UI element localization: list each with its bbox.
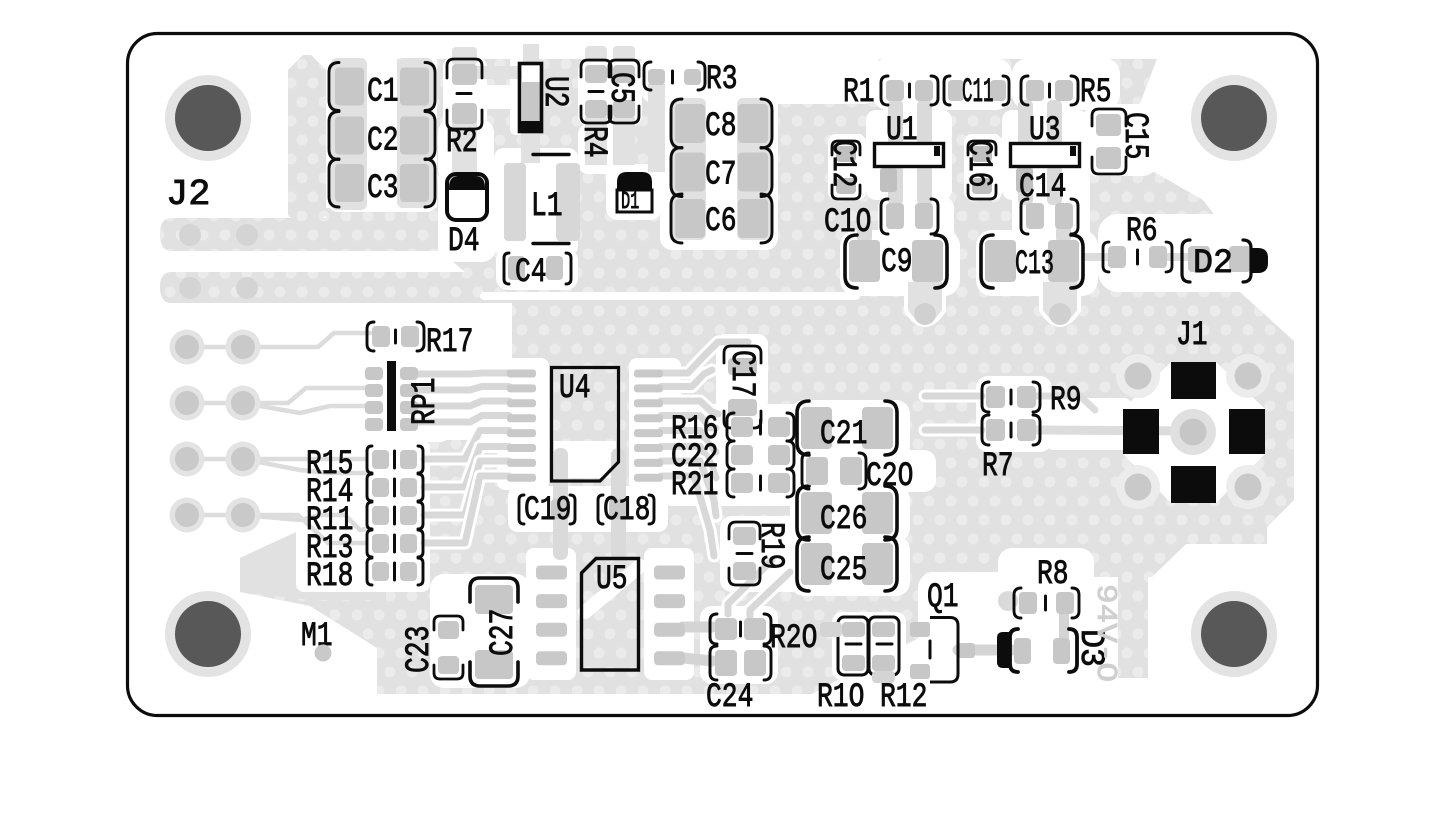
traces RP1 to U4 <box>417 373 509 543</box>
resistor R11 <box>306 502 423 540</box>
capacitor C17 <box>722 346 761 428</box>
traces R19 to R20 C24 <box>683 560 790 661</box>
capacitor C10 <box>824 199 938 242</box>
svg-text:C17: C17 <box>722 350 760 397</box>
svg-text:U4: U4 <box>559 370 591 408</box>
teardrop C13 <box>1043 282 1077 323</box>
resistor R14 <box>306 474 423 512</box>
resistor R15 <box>306 446 423 484</box>
svg-text:R19: R19 <box>751 522 789 569</box>
stems C19 C18 <box>553 448 626 560</box>
svg-text:C4: C4 <box>515 254 547 292</box>
capacitor C1 <box>329 63 435 112</box>
svg-text:R21: R21 <box>671 467 718 505</box>
mount hole BR <box>1191 591 1277 677</box>
svg-text:J2: J2 <box>166 174 210 215</box>
board outline <box>128 34 1318 716</box>
U5 right pads <box>654 566 685 666</box>
U4 left pads <box>507 370 536 482</box>
resistor R7 <box>982 415 1040 486</box>
svg-text:C24: C24 <box>706 679 753 717</box>
stems C9 C13 up <box>857 225 1071 243</box>
traces R9 R7 to J1 <box>925 396 1193 431</box>
svg-text:C5: C5 <box>601 72 639 104</box>
marking 94V-0 <box>1089 584 1122 682</box>
teardrop C9 <box>908 282 942 323</box>
svg-text:C25: C25 <box>820 552 867 590</box>
diode D4 <box>447 174 487 261</box>
capacitor C18 <box>598 492 654 530</box>
svg-text:R12: R12 <box>880 679 927 717</box>
svg-text:L1: L1 <box>531 188 563 226</box>
resistor R8 <box>998 556 1079 618</box>
component R21 <box>671 467 794 505</box>
resistor R10 <box>817 617 868 717</box>
pour strips under C6-C8 <box>672 98 771 240</box>
svg-text:C14: C14 <box>1019 169 1066 207</box>
inductor L1 <box>504 155 580 244</box>
resistor R6 <box>1103 213 1172 272</box>
stems U1 <box>888 100 932 205</box>
svg-text:D1: D1 <box>621 189 639 216</box>
svg-text:J1: J1 <box>1176 317 1208 355</box>
svg-text:C26: C26 <box>820 501 867 539</box>
connector J1 <box>1123 317 1265 503</box>
svg-text:U5: U5 <box>596 561 628 599</box>
diode D2 <box>1182 240 1268 283</box>
resistor R5 <box>1021 74 1112 112</box>
svg-text:C13: C13 <box>1015 246 1054 284</box>
connector J1 corner pads <box>1116 354 1270 509</box>
svg-text:C15: C15 <box>1115 112 1153 159</box>
svg-text:C9: C9 <box>881 244 913 282</box>
svg-text:R1: R1 <box>843 74 875 112</box>
svg-text:C23: C23 <box>401 626 439 673</box>
mount hole TL <box>165 75 251 161</box>
pads C4 <box>508 256 563 280</box>
clearances <box>328 54 437 212</box>
svg-text:U2: U2 <box>535 76 573 108</box>
svg-text:C18: C18 <box>603 492 650 530</box>
pour wedge bottom-left <box>240 522 386 600</box>
svg-text:R8: R8 <box>1037 556 1069 594</box>
mount hole TR <box>1191 75 1277 161</box>
svg-text:R5: R5 <box>1080 74 1112 112</box>
resistor R12 <box>869 617 927 717</box>
capacitor C26 <box>797 486 897 540</box>
capacitor C5 <box>601 60 639 123</box>
copper pour <box>160 59 1294 694</box>
trace R6 to D2 <box>1085 253 1190 261</box>
svg-text:U1: U1 <box>886 112 918 150</box>
capacitor C19 <box>519 492 575 530</box>
white inside U4 <box>554 441 616 478</box>
svg-text:R18: R18 <box>306 558 353 596</box>
capacitor C3 <box>329 159 435 208</box>
svg-text:RP1: RP1 <box>407 378 445 425</box>
U4 right pads <box>634 370 663 482</box>
capacitor C25 <box>797 537 897 591</box>
diode D1 <box>617 172 652 216</box>
traces left fan <box>190 333 370 543</box>
capacitor C9 <box>845 235 947 288</box>
svg-text:C16: C16 <box>959 140 997 187</box>
component R16 <box>671 411 794 449</box>
capacitor C7 <box>671 148 772 197</box>
white channel under top pour <box>484 292 856 300</box>
pour strips under C1-C3 <box>331 58 433 210</box>
svg-text:C3: C3 <box>367 170 399 208</box>
connector J2 pads <box>170 330 261 533</box>
resistor R20 <box>710 614 817 658</box>
svg-text:R3: R3 <box>706 61 738 99</box>
capacitor C2 <box>329 112 435 161</box>
resistor R3 <box>644 61 738 99</box>
resistor network RP1 <box>365 361 445 431</box>
svg-text:R7: R7 <box>982 448 1014 486</box>
capacitor C15 <box>1092 109 1153 174</box>
IC U3 <box>1011 112 1080 192</box>
svg-text:R6: R6 <box>1126 213 1158 251</box>
svg-text:94V-O: 94V-O <box>1089 584 1122 682</box>
svg-text:C11: C11 <box>962 74 994 112</box>
transistor Q1 <box>910 579 975 682</box>
svg-text:C21: C21 <box>820 416 867 454</box>
svg-text:C2: C2 <box>367 123 399 161</box>
capacitor C8 <box>671 99 772 148</box>
capacitor C20 <box>802 453 913 496</box>
stems U3 <box>1018 100 1062 205</box>
capacitor C21 <box>797 401 897 455</box>
capacitor C12 <box>823 140 861 199</box>
resistor R13 <box>306 530 423 568</box>
svg-text:U3: U3 <box>1029 112 1061 150</box>
via pads <box>179 224 201 246</box>
capacitor C4 <box>504 253 571 292</box>
trace R8 to D3 <box>1059 610 1069 640</box>
traces U4 to C17/R16 <box>661 342 748 556</box>
capacitor C13 <box>981 235 1083 288</box>
component C22 <box>671 439 794 477</box>
resistor R1 <box>843 74 938 112</box>
svg-text:D2: D2 <box>1193 245 1233 283</box>
capacitor C23 <box>401 616 463 679</box>
U5 left pads <box>536 566 567 666</box>
capacitor C24 <box>706 646 771 717</box>
svg-text:C8: C8 <box>705 108 737 146</box>
resistor R19 <box>729 522 789 585</box>
svg-text:C2O: C2O <box>866 458 913 496</box>
svg-text:R17: R17 <box>426 324 473 362</box>
resistor R2 <box>446 59 482 162</box>
svg-text:R4: R4 <box>574 126 612 158</box>
svg-text:D4: D4 <box>448 223 480 261</box>
svg-text:Q1: Q1 <box>927 579 959 617</box>
mount hole BL <box>165 591 251 677</box>
pour stubs top cluster <box>452 44 665 174</box>
capacitor C27 <box>470 578 523 686</box>
svg-text:R2O: R2O <box>770 620 817 658</box>
capacitor C6 <box>671 194 772 243</box>
capacitor C16 <box>959 140 997 199</box>
IC U4 <box>552 368 619 482</box>
resistor R17 <box>367 322 473 362</box>
resistor R18 <box>306 558 423 596</box>
svg-text:R9: R9 <box>1050 382 1082 420</box>
svg-text:C19: C19 <box>524 492 571 530</box>
svg-text:C6: C6 <box>705 203 737 241</box>
resistor R4 <box>574 60 612 158</box>
resistor R9 <box>982 382 1082 420</box>
IC U2 <box>520 64 574 132</box>
svg-text:C1: C1 <box>367 74 399 112</box>
svg-text:C27: C27 <box>485 609 523 656</box>
pour patch top-left <box>288 55 326 230</box>
IC U1 <box>875 112 944 192</box>
svg-text:C7: C7 <box>705 157 737 195</box>
capacitor C14 <box>1019 169 1078 234</box>
svg-text:R2: R2 <box>446 124 478 162</box>
label J2 <box>166 174 210 215</box>
white channel in U5 <box>585 566 640 612</box>
trace Q1 to D3 <box>958 645 1012 656</box>
svg-text:C12: C12 <box>823 140 861 187</box>
svg-text:R1O: R1O <box>817 679 864 717</box>
mount M1 <box>301 618 333 662</box>
IC U5 <box>582 559 639 671</box>
capacitor C11 <box>944 74 1009 112</box>
J1 clearance <box>1123 362 1265 503</box>
diode D3 <box>997 629 1109 672</box>
